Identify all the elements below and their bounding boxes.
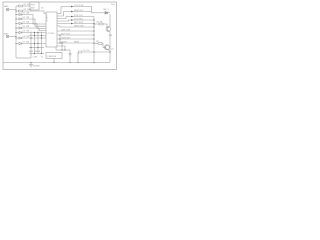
resistor R6 — [94, 23, 107, 27]
svg-text:455kHz: 455kHz — [33, 66, 40, 68]
oscillator stub wires — [56, 43, 70, 50]
resistor R7 — [94, 43, 103, 46]
junction dot R6 — [93, 23, 94, 24]
pin tie vertical — [59, 35, 61, 43]
junction dot osc taps — [61, 42, 62, 43]
arrow net A — [71, 6, 73, 8]
transistor Q1 — [106, 14, 111, 32]
resistor R1 — [16, 5, 30, 7]
transistor Q2 — [103, 45, 109, 51]
arrow rung 2 — [71, 19, 73, 21]
right vertical bus — [93, 17, 95, 63]
svg-text:D6 158: D6 158 — [23, 36, 31, 38]
svg-text:PWR KEY: PWR KEY — [61, 37, 71, 39]
matrix bottom row B — [29, 53, 44, 55]
pin tie dots — [59, 34, 60, 43]
svg-text:D5 158: D5 158 — [23, 31, 31, 33]
svg-text:CCD SEL: CCD SEL — [74, 19, 84, 21]
connector J2 — [6, 35, 16, 38]
left bus junction dots — [15, 10, 16, 44]
wire net REM A — [57, 7, 92, 14]
svg-text:LMP CHK: LMP CHK — [61, 29, 71, 31]
note box N1 — [30, 2, 39, 10]
svg-text:3V: 3V — [41, 7, 44, 9]
resistor R2 — [16, 10, 46, 13]
diode D3 — [16, 22, 46, 28]
diode D2 — [16, 18, 46, 26]
arrow net B — [71, 11, 73, 13]
svg-text:D4 158: D4 158 — [23, 26, 31, 28]
matrix col 3 — [37, 32, 39, 54]
connector J1 — [6, 8, 16, 11]
border frame — [3, 2, 117, 70]
diode D4 — [16, 27, 46, 31]
matrix junction dots — [30, 32, 42, 54]
diode D5 matrix row 1 — [16, 31, 46, 33]
svg-text:SYS CLK: SYS CLK — [74, 15, 83, 17]
svg-text:LC7461: LC7461 — [47, 33, 55, 35]
svg-text:BAT+: BAT+ — [4, 5, 10, 8]
junction dots osc bus — [53, 62, 70, 63]
junction dot ground — [30, 62, 31, 63]
svg-text:COM: COM — [33, 57, 38, 59]
svg-text:REM: REM — [74, 41, 79, 43]
wire left vertical bus — [15, 6, 17, 58]
svg-text:BAT-: BAT- — [4, 33, 9, 36]
svg-text:D3 158: D3 158 — [23, 22, 31, 24]
matrix col 2 — [34, 32, 36, 54]
arrow rung 1 — [71, 16, 73, 18]
key matrix — [29, 32, 46, 59]
svg-text:LC7461M: LC7461M — [45, 14, 47, 22]
arrow rung 3 — [71, 23, 73, 25]
svg-text:D1 158: D1 158 — [23, 13, 31, 15]
diode D7 matrix row 3 — [16, 42, 46, 44]
wire LED feed — [92, 12, 106, 14]
svg-text:D2 158: D2 158 — [23, 17, 31, 19]
svg-text:X1: X1 — [41, 57, 43, 59]
wire right lower rail — [81, 51, 110, 53]
wire net REM B — [57, 12, 92, 17]
matrix col 4 — [41, 32, 43, 54]
svg-text:R6 1K: R6 1K — [97, 22, 103, 24]
junction dots C2 — [77, 51, 110, 63]
svg-text:2SB: 2SB — [109, 35, 113, 37]
svg-text:C2 47u: C2 47u — [83, 50, 89, 52]
svg-text:No.3: No.3 — [111, 4, 115, 6]
IC right pin fanout upper rungs — [57, 17, 94, 28]
matrix bottom row A — [29, 47, 44, 49]
matrix col 1 — [30, 32, 32, 59]
svg-text:SW16: SW16 — [35, 51, 42, 53]
diode D6 matrix row 2 — [16, 37, 46, 39]
ground symbol — [29, 63, 33, 68]
svg-text:Q2: Q2 — [111, 49, 114, 51]
svg-text:SW: SW — [31, 8, 34, 10]
svg-text:CSB455E: CSB455E — [47, 56, 57, 58]
svg-text:SW1: SW1 — [29, 51, 34, 53]
IC U1 LC7461 — [46, 12, 57, 47]
svg-text:D7 158: D7 158 — [23, 42, 31, 44]
svg-text:SLP OUT: SLP OUT — [61, 33, 71, 35]
ground bus — [3, 62, 110, 64]
IC right pin fanout lower rungs — [57, 31, 94, 43]
LED D8 — [105, 11, 110, 14]
diode D1 — [16, 13, 46, 24]
capacitor C2 electrolytic — [78, 50, 81, 62]
wire key common — [16, 57, 31, 59]
svg-text:REM CHK: REM CHK — [74, 26, 84, 28]
matrix row extra — [29, 35, 46, 37]
svg-text:CCD 3.3V: CCD 3.3V — [74, 5, 84, 7]
svg-text:KEY SCN: KEY SCN — [74, 22, 84, 24]
svg-text:KEY: KEY — [31, 5, 36, 7]
wire resonator to bus — [53, 59, 55, 63]
wire Q1 emitter to bus — [109, 32, 111, 63]
svg-text:REM OUT: REM OUT — [74, 10, 84, 12]
capacitor C1 — [69, 50, 72, 63]
resonator X1 box — [46, 53, 62, 59]
svg-text:LED 1: LED 1 — [103, 9, 110, 11]
bus junction dots — [93, 19, 94, 43]
